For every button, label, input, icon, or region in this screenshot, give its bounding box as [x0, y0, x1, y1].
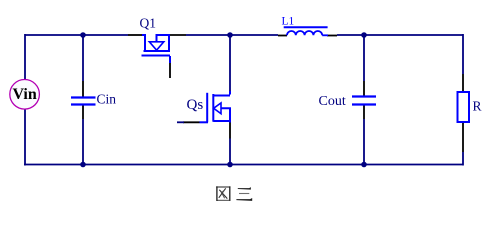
wire Cin vertical top — [82, 35, 84, 81]
node junction dot top SW — [227, 32, 233, 38]
wire L1 right inner blue segment — [322, 34, 328, 36]
transistor Q1 (high-side MOSFET) — [142, 34, 171, 56]
caption char 图 inner — [219, 190, 227, 199]
inductor L1 core line — [284, 26, 328, 28]
capacitor Cin — [71, 98, 96, 105]
node junction dot bottom Qs — [227, 162, 233, 168]
svg-text:L1: L1 — [282, 16, 295, 28]
node junction dot bottom Cin — [80, 162, 86, 168]
wire Cout vertical top — [363, 35, 365, 81]
caption char 图 box — [216, 186, 218, 201]
caption 图三 (Figure 3) drawn as strokes — [216, 186, 252, 201]
resistor R — [458, 92, 470, 122]
svg-text:Cout: Cout — [319, 94, 346, 109]
node junction dot bottom Cout — [361, 162, 367, 168]
transistor Q1 gate lead — [169, 56, 171, 63]
wire bottom horizontal — [24, 164, 463, 166]
svg-text:Qs: Qs — [187, 97, 204, 113]
caption char 三 strokes — [238, 188, 251, 189]
wire Q1 right to node SW — [169, 34, 186, 36]
wire SW node down to Qs drain — [229, 35, 231, 91]
node junction dot top Cout — [361, 32, 367, 38]
node junction dot top Cin — [80, 32, 86, 38]
wire right vertical (to R) — [462, 34, 464, 74]
wire top-left horizontal (Vin top to Cin node to Q1) — [25, 34, 128, 36]
wire Cout vertical bottom — [363, 105, 365, 119]
inductor L1 coil — [287, 31, 322, 35]
capacitor Cout — [352, 97, 376, 105]
svg-text:Vin: Vin — [12, 86, 36, 103]
svg-text:R: R — [473, 99, 482, 114]
wire L1 to Cout node to top-right corner — [337, 34, 463, 36]
transistor Q1 arrow — [149, 42, 164, 50]
wire L1 right pin black — [327, 35, 337, 37]
wire Q1 drain pin black segment — [128, 34, 142, 36]
transistor Qs gate lead black — [183, 121, 200, 123]
wire Cin vertical bottom — [82, 105, 84, 119]
svg-text:Cin: Cin — [97, 92, 117, 107]
svg-text:Q1: Q1 — [140, 16, 157, 31]
source Vin circle — [10, 80, 40, 110]
transistor Qs (low-side MOSFET) — [200, 93, 231, 123]
wire left vertical (Vin branch) — [24, 34, 26, 80]
transistor Qs arrow — [214, 103, 221, 114]
wire Qs source down to bottom rail — [229, 123, 231, 139]
wire L1 left pin black — [278, 35, 287, 37]
